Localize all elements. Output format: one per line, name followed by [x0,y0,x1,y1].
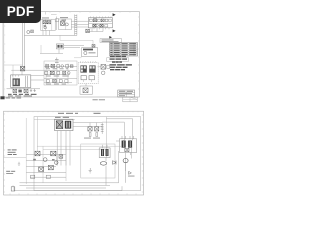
page 1 ruler ticks left [4,17,5,89]
wire bottom horizontal y=35.4 [24,34,77,36]
chassis bottom long line [14,190,122,192]
wire to K101 via corner B [106,119,132,141]
left cluster transistor A [43,158,47,162]
transistor circle below parts [101,71,105,75]
IC U1 block [89,18,113,28]
page 2 ruler ticks left [4,114,5,192]
X-box component left of parts list [101,65,106,70]
revision table frame [110,43,138,56]
K102 pins up [103,145,108,148]
U1 low transistor circle [96,24,98,26]
U1 top cell 3 [98,19,101,22]
page 2 header text right [94,113,101,114]
matrix r1 comp c [57,65,60,68]
module A pins down [43,31,50,36]
ground symbol 1 [30,89,32,92]
transistor Q102 ellipse [123,159,128,163]
wire stub to X-box [98,66,102,68]
relay K102 enclosure [99,148,110,158]
dashed module box M1 [78,63,98,84]
relay K101 bar B [128,141,132,148]
footer text left [6,97,22,98]
module A inner verticals [43,19,52,30]
matrix r1 comp d [61,65,64,68]
wire T1 right y=80 [31,79,44,81]
relay K101 bar A [122,141,126,148]
chassis outline rect [34,117,141,191]
left cluster X-box r1b [51,151,56,156]
transistor TS2 circle [65,23,68,26]
T101 pins down [57,131,70,166]
ground mark left [18,162,20,165]
matrix r1 comp a [46,65,49,68]
relay K101 enclosure [120,139,137,153]
T1 top ticks [13,75,19,77]
connector ladder rails [75,14,77,35]
relay K101 pins up [122,136,133,139]
left cluster X-box r1a [35,151,40,156]
matrix text row 1 [46,67,68,70]
wire R9 up [12,185,14,186]
module B label [60,16,68,19]
ground symbol 2 [33,89,35,92]
T1 secondary lines [25,76,27,87]
bottom components row: box 2 [18,90,21,93]
wire vertical x=41 [40,45,42,53]
M1 IC group 1 [80,65,86,72]
matrix r3 comp b [53,79,57,82]
notes box N1 [82,48,98,57]
wire T1 right y=75 [31,75,44,77]
M1 top pin ticks [81,61,96,63]
relay K102 bar A [101,149,104,156]
U1 pins down and collector wires [92,28,103,32]
N1 dark bar [83,49,93,51]
relay K101 pins down [126,153,131,183]
wire pair into IC U1 [71,21,88,27]
diode D101 [113,161,116,165]
wire verticals from badge area down to fuse [23,23,25,67]
left cluster transistor B [55,161,59,165]
cap labels [84,137,91,140]
wire N1 bottom left [74,57,82,59]
page 1 sheet border [4,12,140,97]
parts list text block [110,56,126,57]
ground symbol center page2 [89,168,92,173]
page 2 sheet border [4,111,144,195]
module B top mark [62,20,67,21]
cap C102 [95,127,99,131]
page 2 header text center [58,113,78,114]
left cluster box r3b [46,175,50,178]
matrix text row 2 [46,75,69,78]
matrix text row 3 [46,83,66,86]
left cluster small marks [33,159,36,161]
title block text [119,90,133,93]
left cluster box r3a [31,175,35,178]
wire vertical x=59 down [58,49,60,54]
wire path module B to N1 [60,35,93,44]
regulator cluster box [56,44,63,49]
U1 top cell 1 [90,19,93,22]
matrix r1 comp f [70,65,73,68]
chassis inner top line [34,119,75,121]
wire from left border [4,156,27,158]
left cluster verticals [26,118,66,184]
small dark comp above N1 [92,45,95,48]
matrix r2 comp c [57,71,60,74]
X-box below U1 [86,29,90,32]
wire stub under badge [30,31,31,33]
T101 winding A [56,121,63,129]
resistor R102 [96,133,98,137]
U1 pins up ticks [91,16,112,17]
T101 winding B [65,121,71,129]
M1 lower cell ticks [84,80,92,82]
connector arrow bottom [113,29,116,32]
wire horizontal y=31.5 [86,31,103,33]
matrix r2 comp e [68,72,71,75]
matrix r2 comp b [50,71,54,74]
parts list outline box [107,58,129,62]
page 2 ruler ticks top [8,111,138,112]
M1 lower cell 2 [89,76,94,80]
matrix wires horizontal [44,66,77,82]
connector ladder rungs [75,16,77,34]
regulator dark cells [57,45,59,48]
PDF badge [0,0,41,23]
module box M2 [80,86,92,94]
matrix r2 comp d [63,71,66,74]
wire to K101 via corner A [102,122,124,140]
left cluster X-box r2b [48,165,53,169]
U1 top cell 5 [105,19,108,22]
bottom rail wire page1 [7,88,41,90]
matrix r1 comp e [66,65,69,68]
small box B2 [107,65,110,68]
left label rows page2 [8,149,17,150]
transistor Q101 ellipse [100,162,106,166]
wire Q102 down [125,163,127,171]
matrix enclosure box [44,61,77,85]
relay K2 in module A [47,21,50,24]
module A enclosure [41,19,55,30]
page 1 ruler ticks right [138,17,139,89]
resistor R101 [89,133,91,137]
transformer T101 body [55,119,73,130]
M1 lower cell 1 [81,76,86,80]
wire horizontal y=65 from border [4,64,23,66]
page 1 sheet outer border line [2,11,4,97]
N1 circle mark [84,51,87,54]
label box text [102,39,114,42]
switch S2 small box [55,19,58,22]
chassis inner left vertical [37,117,39,152]
capacitor stack symbol [55,60,59,63]
module A label [42,17,49,20]
matrix verticals [46,64,68,85]
module B inner vertical [65,19,67,30]
U1 top cell 2 dark [93,19,96,22]
U1 top cell 4 dark [101,19,104,22]
left cluster X-box r1c [59,155,63,158]
M2 X component [83,88,88,93]
wire pair transformer to right [73,123,102,127]
transformer T101 label [55,116,69,119]
matrix r2 comp a [45,71,48,74]
page 1 ruler ticks top [10,12,130,13]
transistor TS1 circle [44,26,47,29]
relay K102 bar B [106,149,109,156]
transformer T1 body [11,75,31,88]
module A mid mark [44,25,47,26]
revision table grid [110,45,138,54]
wires from regulator to right [64,46,84,48]
relay K1 in module A [43,21,46,24]
left cluster wires horizontal [26,154,66,177]
wire right drop x=102 [101,123,103,134]
transistor circle under badge [27,31,30,34]
module B enclosure [59,19,72,30]
chassis bottom corner verticals [14,186,122,190]
footer stamp table [123,97,137,102]
T1 winding blob [13,78,20,86]
wire top area horizontals [37,146,122,149]
U1 mid divider [89,22,113,24]
bottom components row: X-box [13,89,17,92]
cap C101 [88,127,92,131]
M1 IC group 2 [89,65,95,72]
N1 text dash [89,51,96,54]
bottom bus lines page2 [20,183,119,188]
inner box around relay K102 group [81,144,115,178]
diode D102 and label [129,171,132,174]
matrix r1 comp b [51,64,55,67]
U1 top cell 6 [109,19,111,22]
wire M2 up [85,84,87,86]
U1 pins down ticks [90,28,109,30]
wire stubs from top border [41,12,46,20]
connector arrow top [113,13,116,16]
U1 low cell 2 dark [100,24,103,27]
revision table text [110,43,136,44]
page 2 ruler ticks right [142,115,144,192]
bottom tiny text row page1 [8,94,37,95]
left cluster X-box r2a [39,167,44,171]
wire short horizontal y=14.7 [51,14,57,16]
wire fuse down [21,71,23,75]
title block [118,90,135,97]
matrix r3 comp c [59,80,62,83]
relay K101 lower X-box [125,148,129,151]
resistor R9 bottom left [11,187,15,191]
matrix r3 comp a [46,80,49,83]
label box L1 [100,39,122,43]
title block rows [118,92,135,97]
wire into K101 left [116,140,120,142]
footer text center [93,99,106,100]
wire vertical x=13 [12,65,14,89]
connector arrow above table [109,36,112,39]
fuse X-box left [20,67,24,71]
right area vertical wires [106,147,131,185]
T1 pins to rail [12,88,28,89]
bottom components row: box 3 [24,89,28,92]
wire horizontal y=53.4 [40,52,63,54]
fuse X-box in module B [61,21,65,25]
U1 low cell 1 dark [93,24,96,27]
cap C103 plate ticks [101,124,104,131]
wire fuse to center [11,69,44,71]
wire long vertical x=106.4 [105,117,107,158]
wire vertical between modules [56,17,58,31]
page 2 ruler ticks bottom [10,193,136,195]
matrix r3 comp d [65,80,68,83]
X mark under badge [31,30,34,33]
footer logo mark [0,96,4,99]
left note text page2 [6,171,15,172]
U1 low cell right [105,25,108,27]
